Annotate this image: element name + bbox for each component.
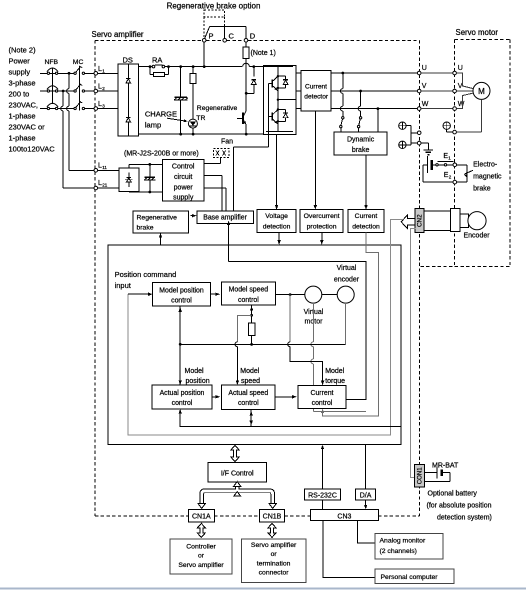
svg-text:control: control (238, 297, 259, 304)
svg-text:Servo amplifier: Servo amplifier (178, 562, 224, 569)
svg-text:torque: torque (325, 378, 345, 385)
svg-text:(Note 2): (Note 2) (9, 46, 37, 55)
svg-text:RA: RA (152, 55, 162, 64)
svg-text:Power: Power (9, 57, 31, 66)
svg-text:detection system): detection system) (437, 515, 492, 522)
svg-text:230VAC,: 230VAC, (9, 101, 38, 110)
svg-text:control: control (172, 400, 193, 407)
svg-text:CN2: CN2 (417, 214, 424, 227)
svg-text:Optional battery: Optional battery (428, 491, 478, 498)
svg-text:D/A: D/A (360, 493, 372, 500)
svg-text:Regenerative brake option: Regenerative brake option (167, 2, 261, 11)
svg-text:Regenerative: Regenerative (197, 105, 238, 112)
svg-text:position: position (186, 378, 210, 385)
svg-text:(Note 1): (Note 1) (251, 50, 276, 57)
svg-text:100to120VAC: 100to120VAC (9, 145, 56, 154)
svg-text:Regenerative: Regenerative (137, 214, 178, 221)
svg-text:MR-BAT: MR-BAT (432, 462, 459, 469)
svg-text:control: control (312, 400, 333, 407)
svg-text:CHARGE: CHARGE (145, 110, 177, 119)
svg-text:Model speed: Model speed (229, 287, 269, 294)
svg-text:Virtual: Virtual (337, 265, 357, 272)
svg-text:brake: brake (352, 147, 370, 154)
svg-text:1-phase: 1-phase (9, 134, 36, 143)
svg-text:C: C (229, 32, 235, 41)
svg-text:Model: Model (325, 368, 345, 375)
svg-text:detection: detection (352, 224, 380, 231)
svg-text:TR: TR (196, 115, 205, 122)
svg-text:W: W (458, 101, 465, 108)
svg-text:CN1B: CN1B (263, 514, 282, 521)
svg-text:MC: MC (73, 59, 84, 66)
svg-text:P: P (209, 32, 214, 41)
svg-text:Controller: Controller (186, 543, 216, 550)
svg-text:power: power (174, 184, 194, 191)
svg-text:or: or (271, 551, 278, 558)
svg-text:CON1: CON1 (417, 467, 424, 485)
svg-text:Model: Model (240, 368, 260, 375)
svg-text:21: 21 (102, 182, 108, 187)
svg-text:connector: connector (259, 570, 290, 577)
svg-text:supply: supply (9, 68, 31, 77)
svg-text:200 to: 200 to (9, 90, 30, 99)
svg-text:Encoder: Encoder (464, 232, 491, 239)
svg-text:U: U (422, 65, 427, 72)
svg-text:CN3: CN3 (337, 513, 351, 520)
svg-text:motor: motor (305, 319, 324, 326)
svg-text:termination: termination (257, 561, 291, 568)
svg-text:Actual speed: Actual speed (228, 390, 268, 397)
svg-text:Actual position: Actual position (160, 390, 205, 397)
svg-text:Current: Current (305, 83, 327, 90)
svg-text:Current: Current (355, 213, 378, 220)
svg-text:Servo amplifier: Servo amplifier (251, 542, 297, 549)
svg-text:Base amplifier: Base amplifier (203, 215, 247, 222)
svg-text:D: D (250, 32, 256, 41)
svg-text:or: or (198, 552, 205, 559)
svg-text:Current: Current (311, 390, 334, 397)
svg-text:CN1A: CN1A (192, 514, 211, 521)
svg-text:lamp: lamp (145, 121, 161, 130)
svg-text:NFB: NFB (45, 59, 59, 66)
svg-text:(MR-J2S-200B or more): (MR-J2S-200B or more) (124, 150, 199, 157)
svg-text:control: control (238, 400, 259, 407)
svg-text:supply: supply (173, 195, 194, 202)
svg-text:Model: Model (185, 368, 205, 375)
svg-text:encoder: encoder (334, 276, 360, 283)
svg-text:Voltage: Voltage (265, 213, 288, 220)
svg-text:magnetic: magnetic (473, 173, 502, 180)
svg-text:RS-232C: RS-232C (308, 493, 337, 500)
svg-text:speed: speed (241, 378, 260, 385)
svg-text:Position command: Position command (115, 270, 177, 279)
svg-text:DS: DS (123, 55, 133, 64)
svg-text:detector: detector (304, 94, 329, 101)
svg-text:detection: detection (263, 224, 291, 231)
svg-text:protection: protection (307, 224, 337, 231)
svg-text:3-phase: 3-phase (9, 79, 36, 88)
svg-text:(2 channels): (2 channels) (380, 548, 417, 555)
svg-text:Dynamic: Dynamic (347, 137, 375, 144)
svg-text:M: M (478, 87, 485, 96)
svg-text:11: 11 (102, 165, 107, 170)
svg-text:Control: Control (172, 164, 195, 171)
svg-text:I/F Control: I/F Control (221, 470, 254, 477)
svg-text:brake: brake (473, 185, 491, 192)
svg-text:Fan: Fan (221, 138, 233, 145)
svg-text:(for absolute position: (for absolute position (427, 503, 492, 510)
svg-text:V: V (458, 83, 463, 90)
svg-text:Overcurrent: Overcurrent (304, 213, 340, 220)
svg-text:U: U (458, 65, 463, 72)
svg-text:1-phase: 1-phase (9, 112, 36, 121)
svg-text:W: W (422, 101, 429, 108)
svg-text:Model position: Model position (159, 287, 204, 294)
svg-text:Servo amplifier: Servo amplifier (92, 30, 144, 39)
svg-text:Analog monitor: Analog monitor (380, 538, 426, 545)
svg-text:230VAC or: 230VAC or (9, 123, 46, 132)
svg-text:input: input (115, 281, 132, 290)
svg-text:V: V (422, 83, 427, 90)
svg-text:brake: brake (137, 225, 154, 232)
svg-text:Servo motor: Servo motor (456, 28, 499, 37)
svg-text:circuit: circuit (174, 174, 192, 181)
svg-text:Personal computer: Personal computer (381, 574, 439, 581)
svg-text:control: control (171, 298, 192, 305)
svg-text:Electro-: Electro- (473, 161, 498, 168)
